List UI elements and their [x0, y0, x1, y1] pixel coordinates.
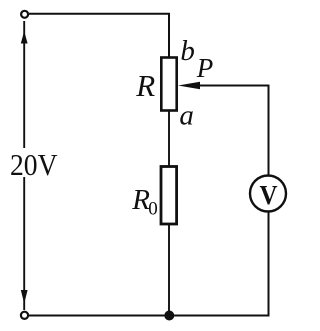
- svg-text:0: 0: [148, 198, 158, 219]
- wiper arrow P: [178, 82, 269, 89]
- wire R to R0: [168, 111, 170, 167]
- terminal T1 (top-left): [21, 11, 28, 18]
- terminal T2 (bottom-left): [21, 312, 28, 319]
- junction dot: [164, 311, 174, 321]
- resistor R0 body: [161, 167, 177, 225]
- svg-text:V: V: [260, 180, 278, 210]
- wire bottom: [29, 315, 270, 317]
- svg-text:a: a: [179, 99, 194, 131]
- svg-text:P: P: [196, 53, 214, 83]
- svg-text:b: b: [180, 35, 195, 67]
- wire R0 to bottom: [168, 224, 170, 315]
- potentiometer R body: [161, 58, 176, 111]
- 20V arrow upper: [21, 21, 28, 148]
- svg-text:20V: 20V: [10, 147, 58, 182]
- 20V arrow lower: [21, 177, 28, 310]
- svg-text:R: R: [135, 68, 155, 103]
- wire right lower (voltmeter to bottom wire): [268, 213, 270, 317]
- wire right upper (wiper corner to voltmeter): [268, 85, 270, 175]
- voltmeter V1: [250, 176, 286, 212]
- wire top: [29, 14, 169, 58]
